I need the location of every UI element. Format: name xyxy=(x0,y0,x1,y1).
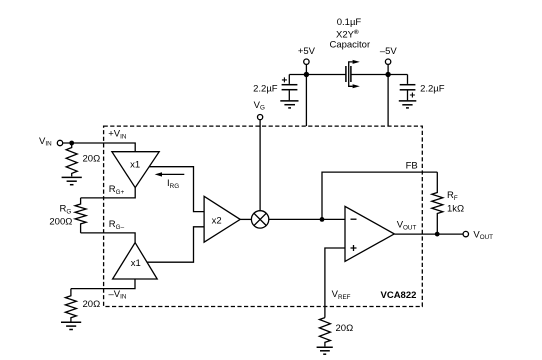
wire VIN input xyxy=(63,143,136,152)
resistor R 20ohm bottom left xyxy=(65,289,100,322)
resistor R 20ohm VREF xyxy=(319,318,353,347)
multiplier U1 xyxy=(251,211,268,228)
svg-text:x2: x2 xyxy=(212,215,222,226)
terminal VOUT xyxy=(463,229,493,241)
wire output net xyxy=(394,233,463,235)
svg-text:FB: FB xyxy=(406,160,418,171)
wire FB net xyxy=(322,172,437,219)
svg-text:20Ω: 20Ω xyxy=(336,323,354,334)
svg-text:–5V: –5V xyxy=(380,46,398,57)
resistor RF 1kohm xyxy=(432,172,464,234)
wire RG+ net xyxy=(81,188,136,198)
wire x2 to multiplier xyxy=(240,218,251,220)
ground VREF resistor xyxy=(317,347,333,354)
terminal -5V xyxy=(380,46,398,64)
wire VG to multiplier xyxy=(259,120,261,211)
ground right cap xyxy=(399,101,417,108)
svg-text:0.1µF: 0.1µF xyxy=(337,17,362,28)
terminal +5V xyxy=(298,46,316,64)
capacitor C 2.2uF left xyxy=(253,75,297,101)
resistor RG 200ohm xyxy=(49,198,86,233)
op-amp x1 top buffer xyxy=(112,152,159,188)
junction FB node xyxy=(320,217,325,222)
svg-text:2.2µF: 2.2µF xyxy=(420,84,445,95)
resistor R 20ohm top xyxy=(66,143,100,176)
wire -5V drop xyxy=(387,64,389,126)
wire RG- net xyxy=(81,233,136,243)
wire IRG feedback xyxy=(149,167,204,212)
svg-text:+5V: +5V xyxy=(298,46,316,57)
svg-text:20Ω: 20Ω xyxy=(83,299,101,310)
wire +5V drop xyxy=(305,64,307,126)
arrow IRG current xyxy=(155,172,185,190)
terminal VG xyxy=(254,100,265,120)
op-amp U2 output amplifier xyxy=(345,206,416,261)
junction VIN node xyxy=(69,141,74,146)
svg-text:200Ω: 200Ω xyxy=(49,216,72,227)
svg-text:x1: x1 xyxy=(131,258,141,269)
svg-text:2.2µF: 2.2µF xyxy=(253,84,278,95)
svg-text:VCA822: VCA822 xyxy=(381,290,417,301)
wire x1 bottom output xyxy=(147,227,204,262)
dashed box VCA822 xyxy=(104,126,423,306)
op-amp x2 gain stage xyxy=(204,196,240,242)
terminal VIN xyxy=(39,136,63,148)
wire -VIN input xyxy=(71,279,135,289)
svg-text:x1: x1 xyxy=(130,160,140,171)
junction -5V node xyxy=(385,72,390,77)
ground left cap xyxy=(280,101,298,108)
wire top rail left segment xyxy=(289,74,346,76)
junction +5V node xyxy=(304,72,309,77)
svg-text:20Ω: 20Ω xyxy=(83,153,101,164)
svg-text:1kΩ: 1kΩ xyxy=(447,204,464,215)
op-amp x1 bottom buffer xyxy=(113,243,158,279)
wire top rail right segment xyxy=(351,74,408,76)
ground bottom left resistor xyxy=(61,322,81,329)
svg-text:Capacitor: Capacitor xyxy=(329,40,370,51)
label 0.1uF X2Y Capacitor xyxy=(329,17,370,51)
wire op-amp + input to VREF xyxy=(325,248,345,318)
capacitor X2Y 0.1uF xyxy=(346,60,360,88)
junction output node xyxy=(435,232,440,237)
capacitor C 2.2uF right xyxy=(400,75,445,101)
wire multiplier to op-amp xyxy=(269,218,345,220)
ground top resistor xyxy=(62,177,82,184)
